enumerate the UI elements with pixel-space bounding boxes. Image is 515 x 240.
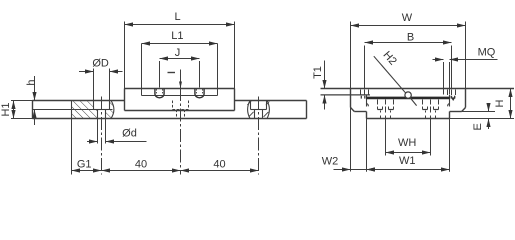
bottom dimensions G1 / 40 / 40: [72, 119, 259, 175]
section break arc: [111, 101, 114, 119]
dimension T1: [324, 61, 326, 110]
svg-text:40: 40: [135, 159, 147, 171]
H2 leader with circle: [374, 56, 417, 105]
grease point leader with dash symbol: [168, 70, 183, 175]
svg-text:W1: W1: [399, 155, 416, 167]
block outline cross-section: [351, 89, 466, 112]
svg-text:H1: H1: [0, 102, 12, 116]
dimension H: [450, 89, 515, 119]
hatching of local section: [72, 101, 114, 119]
dimension E: [462, 104, 495, 130]
seal detail stubs right: [448, 90, 456, 99]
block top line with T1/H extensions: [321, 88, 515, 90]
svg-text:H: H: [494, 99, 506, 107]
counterbore hole 1: [94, 101, 110, 119]
dimension L: [125, 22, 235, 89]
svg-text:WH: WH: [398, 137, 416, 149]
grease port right top: [451, 96, 456, 101]
svg-text:T1: T1: [312, 66, 324, 79]
svg-text:L: L: [175, 11, 181, 23]
dimension Od: [87, 119, 147, 144]
plate underside line with T1 extension: [321, 94, 371, 96]
dimension J: [160, 59, 200, 88]
svg-text:L1: L1: [171, 30, 183, 42]
dimension L1: [142, 44, 218, 96]
dimension H1: [11, 101, 33, 119]
svg-text:H2: H2: [380, 49, 398, 67]
rail bolt hole group left: [378, 100, 394, 119]
counterbore hole 2 with break arcs: [247, 101, 269, 119]
svg-text:G1: G1: [77, 159, 92, 171]
dimension OD: [79, 69, 123, 101]
rail side view outline: [33, 101, 307, 119]
svg-text:MQ: MQ: [478, 46, 496, 58]
svg-text:40: 40: [213, 159, 225, 171]
dimension B: [365, 43, 452, 89]
svg-text:E: E: [472, 123, 484, 130]
dimension MQ: [433, 60, 498, 95]
svg-text:ØD: ØD: [92, 57, 109, 69]
dimension h: [34, 76, 36, 125]
svg-text:W2: W2: [322, 156, 339, 168]
rail bolt hole group right: [423, 100, 439, 119]
dimension WH: [386, 119, 431, 156]
svg-text:h: h: [26, 79, 38, 85]
thread hole right (J): [195, 89, 204, 98]
svg-text:Ød: Ød: [122, 128, 137, 140]
seal detail stubs left: [361, 90, 369, 99]
dimension W1: [367, 119, 450, 172]
svg-text:B: B: [407, 31, 414, 43]
dimension W2: [334, 169, 373, 171]
svg-text:J: J: [175, 47, 181, 59]
dimension W: [351, 22, 466, 172]
rail cross-section: [367, 98, 450, 119]
local section cut line at rail left: [71, 101, 73, 119]
hole 1 center line: [101, 97, 103, 175]
hole 2 center line: [258, 97, 260, 175]
carriage block side view: [125, 89, 235, 111]
svg-text:W: W: [402, 12, 413, 24]
thread hole left (J): [155, 89, 164, 98]
hidden middle hole under block (dashed): [173, 101, 189, 119]
